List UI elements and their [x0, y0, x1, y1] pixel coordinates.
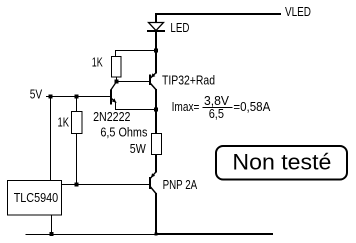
wire resistor bottom to junction [116, 77, 118, 82]
wire 2N2222 emitter to rail [115, 103, 156, 111]
IC TLC5940 [8, 181, 62, 216]
wire junction to TIP32 base [117, 81, 151, 83]
svg-text:1K: 1K [92, 55, 103, 70]
svg-text:PNP 2A: PNP 2A [163, 177, 198, 192]
node bottom rail T junction [155, 233, 158, 236]
svg-text:2N2222: 2N2222 [93, 109, 130, 124]
node 5V/TLC feed junction [49, 95, 53, 99]
svg-text:Imax=: Imax= [172, 99, 200, 114]
wire LED cathode to TIP32 emitter (main rail) [155, 31, 157, 74]
node 1K/base-wire junction [75, 183, 79, 187]
node junction below 1K [115, 80, 119, 84]
wire TLC5940 to PNP base [62, 184, 151, 186]
wire TLC5940 bottom lead [51, 215, 53, 234]
svg-text:Non testé: Non testé [232, 150, 331, 175]
wire fraction bar [203, 107, 233, 109]
svg-text:TIP32+Rad: TIP32+Rad [162, 73, 215, 88]
wire PNP collector to bottom rail [155, 193, 157, 235]
wire 5V down to TLC5940 [50, 96, 52, 181]
wire 1K left bottom to PNP base wire [76, 134, 78, 186]
node 5V/1K junction [75, 95, 79, 99]
node rail/2N2222-emitter junction [154, 108, 158, 112]
transistor PNP 2A [150, 172, 156, 194]
node rail/1K-top junction [154, 49, 158, 53]
transistor TIP32+Rad (PNP) [150, 73, 156, 90]
resistor 1K (left) [72, 112, 83, 134]
wire TIP32 collector rail [155, 89, 157, 134]
svg-text:=0,58A: =0,58A [233, 99, 270, 114]
svg-text:1K: 1K [58, 115, 70, 130]
svg-text:5W: 5W [130, 141, 147, 156]
wire bottom rail thin segment [26, 234, 157, 236]
svg-text:6,5 Ohms: 6,5 Ohms [100, 125, 147, 140]
node TLC5940 bottom junction [50, 232, 54, 236]
resistor 6,5 Ohms 5W [152, 134, 162, 155]
wire 5V rail [46, 96, 111, 98]
wire 1K top feed [115, 50, 156, 57]
resistor 1K (TIP32 base pull-up) [112, 57, 122, 78]
label Imax formula [172, 93, 271, 121]
annotation box Non testé [216, 146, 347, 180]
transistor 2N2222 (NPN) [111, 82, 116, 105]
svg-text:LED: LED [170, 20, 189, 35]
svg-text:6,5: 6,5 [209, 106, 224, 121]
svg-text:TLC5940: TLC5940 [14, 190, 59, 205]
svg-text:5V: 5V [30, 87, 43, 102]
LED D1 [147, 23, 165, 32]
wire resistor to PNP emitter [155, 154, 157, 172]
wire bottom rail bold segment [155, 233, 273, 235]
wire 5V to 1K left [76, 96, 78, 112]
wire VLED top rail [155, 13, 281, 23]
svg-text:VLED: VLED [285, 4, 311, 19]
